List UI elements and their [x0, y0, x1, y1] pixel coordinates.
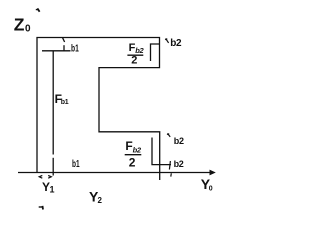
wire: inner vertical line at x=53	[52, 51, 54, 176]
svg-text:b2: b2	[133, 146, 142, 155]
node Z0 label	[14, 15, 31, 35]
dimension Y1 arrows	[39, 175, 51, 178]
svg-text:b2: b2	[174, 159, 184, 169]
label Fb1	[55, 92, 69, 106]
small mark below Y1	[39, 206, 43, 210]
label b2 mid-right with arrow	[167, 134, 184, 146]
Z axis arrowhead	[36, 8, 40, 11]
label b2 top-right with arrow	[165, 38, 182, 49]
label Y1	[42, 180, 55, 195]
svg-text:b1: b1	[72, 159, 80, 170]
svg-text:1: 1	[50, 184, 55, 194]
svg-text:0: 0	[209, 185, 213, 192]
marker: top arm width hook	[151, 44, 160, 61]
svg-text:Z: Z	[14, 15, 25, 35]
svg-text:2: 2	[98, 196, 103, 205]
svg-text:0: 0	[25, 24, 31, 35]
label Y0	[201, 176, 213, 193]
axis Y0 line	[18, 172, 212, 174]
svg-text:b1: b1	[71, 44, 79, 55]
label Y2	[89, 188, 103, 205]
svg-text:2: 2	[131, 55, 137, 67]
wire: resonator outline	[37, 38, 160, 181]
fraction Fb2/2 bottom	[125, 139, 142, 169]
dimension b1 top: line and ticks	[42, 38, 71, 51]
svg-text:2: 2	[129, 155, 136, 169]
small tick below axis at x=171	[170, 173, 173, 176]
svg-text:b1: b1	[61, 99, 69, 106]
dimension tick at end of bottom hook	[169, 161, 170, 170]
marker: bottom arm width hook	[152, 138, 171, 165]
axis Y0 arrowhead	[210, 170, 216, 176]
fraction Fb2/2 top	[127, 42, 144, 67]
svg-text:b2: b2	[170, 38, 182, 49]
svg-text:b2: b2	[174, 136, 184, 146]
